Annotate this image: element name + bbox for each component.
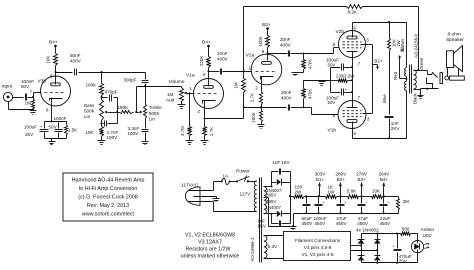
pin 9 V2a (262, 49, 265, 54)
wire feedback riser (243, 7, 245, 72)
svg-text:4.7M: 4.7M (180, 126, 185, 136)
transformer secondary (414, 70, 417, 89)
plug body (450, 76, 465, 80)
svg-text:10K: 10K (46, 56, 51, 64)
net B3+ tap (356, 172, 368, 197)
node OT center tap (405, 77, 407, 82)
wire black lead (413, 89, 421, 105)
wire V1b screen (363, 113, 373, 115)
capacitor 1nF 1KV top snubber (272, 160, 291, 183)
node V1a plate (207, 70, 209, 72)
resistor 5.6K (347, 188, 359, 198)
wire feedback rail (244, 6, 347, 8)
svg-text:V1, V2 ECL86/6GW8: V1, V2 ECL86/6GW8 (185, 232, 235, 238)
speaker (447, 46, 463, 72)
resistor 220K plate V1a (199, 56, 211, 68)
wire rail seg3 (359, 195, 372, 197)
wire 10K to plate rail (55, 66, 57, 73)
pin 2 V1a (198, 109, 201, 114)
wire V2a cathode (261, 77, 263, 92)
jack tip contact (428, 73, 438, 78)
svg-text:2.7K: 2.7K (249, 93, 254, 102)
svg-text:560: 560 (402, 226, 410, 231)
resistor 2.7K V2a cathode (249, 92, 262, 105)
svg-text:450V: 450V (357, 221, 369, 226)
pin 7 V2b (358, 61, 361, 66)
svg-text:180K: 180K (118, 105, 130, 110)
wire cathode rail (351, 58, 353, 94)
resistor 100K tone (86, 73, 104, 96)
svg-text:130Ω 2W: 130Ω 2W (336, 73, 355, 78)
ground V3b cathode (49, 139, 56, 145)
svg-text:Treble: Treble (149, 105, 162, 110)
ground bus filters (294, 212, 399, 226)
svg-text:100uF: 100uF (24, 125, 37, 130)
svg-text:2W: 2W (295, 189, 303, 194)
screen supply line (372, 45, 374, 114)
svg-text:5.6K: 5.6K (347, 188, 357, 193)
wire blue riser (382, 91, 406, 139)
pentode V1b (328, 101, 367, 134)
capacitor 20nF 400V upper (268, 37, 304, 57)
wire to jack (419, 71, 428, 75)
svg-text:Rev: May 2, 2013: Rev: May 2, 2013 (87, 203, 129, 209)
node tone stack top (100, 71, 102, 73)
svg-text:Bass: Bass (84, 103, 95, 108)
svg-text:B1+: B1+ (399, 44, 404, 52)
svg-text:1N4007: 1N4007 (266, 205, 282, 210)
plug tip (445, 76, 449, 80)
svg-text:V3b: V3b (38, 79, 47, 85)
title text (72, 178, 145, 218)
svg-text:V1a: V1a (186, 72, 195, 78)
svg-text:289V: 289V (335, 172, 347, 177)
svg-text:B4+: B4+ (49, 40, 58, 46)
svg-text:100V: 100V (107, 135, 119, 140)
resistor 130ohm 2W cathode (331, 73, 356, 82)
bridge right leg (374, 234, 381, 263)
resistor 10K 1W snubber (388, 23, 401, 51)
svg-text:Power: Power (236, 169, 250, 175)
resistor 10K bass bottom (85, 124, 103, 137)
svg-text:Lin: Lin (84, 114, 91, 119)
wire grid (34, 93, 42, 98)
wire plate rail (56, 72, 73, 74)
ground 470K upper (292, 70, 304, 76)
volume wiper to V1a grid (184, 92, 195, 95)
svg-text:450V: 450V (380, 221, 392, 226)
svg-text:25V: 25V (25, 132, 34, 137)
svg-text:Hammond AO-44 Reverb Amp: Hammond AO-44 Reverb Amp (72, 178, 145, 184)
svg-text:100K: 100K (258, 36, 263, 46)
diode 1N4007 bottom (266, 205, 291, 217)
wire to V1b grid (304, 108, 339, 115)
wire 180K to treble wiper (133, 111, 138, 113)
bridge bottom bus (362, 262, 418, 264)
svg-text:10K: 10K (85, 130, 94, 135)
wire rectifier junction (289, 183, 291, 214)
capacitor 20nF 400V lower (262, 90, 304, 111)
node treble top (144, 85, 146, 87)
wire V1b cathode up (352, 93, 354, 101)
label Volume (169, 79, 185, 85)
resistor 560 LED (401, 226, 411, 235)
label 365V lower (266, 199, 276, 204)
svg-text:Resistors are 1/2W: Resistors are 1/2W (185, 247, 230, 253)
svg-text:365V: 365V (266, 193, 276, 198)
svg-text:Aud: Aud (166, 97, 175, 102)
pin 1 V1a (190, 86, 193, 91)
svg-text:B2+: B2+ (337, 177, 346, 182)
net B2+ (373, 58, 384, 69)
wire to tone stack (79, 72, 146, 74)
triode V2a (246, 52, 282, 85)
svg-text:Filament Connections: Filament Connections (295, 238, 341, 243)
svg-text:400V: 400V (217, 57, 229, 62)
resistor 8.2K feedback (347, 5, 363, 15)
potentiometer Volume 1M Aud (166, 87, 184, 103)
svg-text:AO-24956-1: AO-24956-1 (250, 237, 255, 261)
wire V3b plate (55, 73, 57, 85)
jack bushing (440, 73, 443, 84)
capacitor 50nF 400V coupling (70, 53, 82, 76)
svg-text:B3+: B3+ (262, 22, 271, 28)
triode V1a (186, 72, 224, 108)
svg-text:2KV: 2KV (391, 126, 401, 131)
wire jack to C-in (13, 97, 24, 99)
bridge left leg (358, 234, 365, 263)
svg-text:100K: 100K (251, 112, 256, 122)
title box (63, 173, 153, 221)
net B4+ (V1a) (202, 40, 211, 57)
fuse 1A (221, 173, 231, 184)
svg-text:10nF: 10nF (217, 51, 228, 56)
capacitor 300pF treble (124, 73, 149, 87)
svg-text:1nF: 1nF (391, 121, 399, 126)
jack sleeve return (421, 88, 439, 90)
label 117V (240, 192, 252, 198)
wire to V2a plate (267, 48, 269, 61)
svg-text:400V: 400V (70, 59, 82, 64)
svg-text:to Hi-Fi Amp Conversion: to Hi-Fi Amp Conversion (79, 186, 137, 192)
ground V2a cathode (258, 122, 265, 129)
pin 6 V2b (354, 26, 357, 31)
ground black (418, 96, 424, 99)
ground center tap (290, 225, 297, 229)
svg-text:B4+: B4+ (202, 40, 211, 46)
svg-text:278V: 278V (356, 172, 368, 177)
wire brown lead (400, 23, 406, 68)
node V2a grid (243, 70, 245, 72)
resistor 1M grid leak (25, 98, 35, 109)
node bass bottom (100, 121, 102, 125)
resistor 1M V2a grid (234, 72, 246, 93)
resistor 470K upper grid (302, 54, 313, 70)
svg-text:50V: 50V (49, 124, 58, 129)
capacitor 100nF 50V cathode (49, 122, 63, 139)
ground AC (213, 199, 220, 202)
resistor 100K V2a cathode (251, 108, 263, 123)
label Amber LED (421, 227, 435, 238)
svg-text:100V: 100V (128, 131, 140, 136)
label 180K (118, 105, 130, 110)
svg-text:100K: 100K (86, 83, 98, 88)
svg-text:1nF 1KV: 1nF 1KV (273, 160, 290, 165)
svg-text:Blue: Blue (382, 94, 387, 103)
wire V1b plate rail (353, 138, 407, 140)
svg-text:8 ohm: 8 ohm (448, 31, 461, 37)
wire cathode cross-couple (205, 118, 244, 120)
svg-text:Black: Black (413, 92, 418, 104)
svg-text:20nF: 20nF (281, 90, 292, 95)
svg-text:Volume: Volume (169, 79, 185, 85)
pin 8 V1b (333, 113, 336, 118)
svg-text:Lin: Lin (149, 117, 156, 122)
svg-text:1A: 1A (223, 173, 230, 178)
capacitor 10nF 400V coupling (209, 51, 244, 74)
svg-text:470K: 470K (308, 59, 313, 69)
wire HV center tap (264, 198, 294, 227)
node V1a cathode (203, 117, 205, 119)
svg-text:10K: 10K (372, 188, 381, 193)
svg-text:1M: 1M (25, 101, 32, 106)
svg-text:Red: Red (393, 71, 398, 80)
svg-text:300pF: 300pF (124, 78, 137, 83)
wire V2b screen (362, 44, 373, 46)
capacitor 3.3nF 100V treble (128, 119, 149, 137)
filament connections box (284, 232, 351, 261)
net B4+ (V3b) (49, 40, 58, 54)
svg-text:B1+: B1+ (316, 177, 325, 182)
svg-text:4x 1N4002: 4x 1N4002 (356, 228, 379, 233)
pin 8 V2b (333, 42, 336, 47)
svg-text:B4+: B4+ (380, 177, 389, 182)
power switch (236, 169, 250, 183)
svg-text:50V: 50V (328, 100, 336, 105)
svg-text:1.5K: 1.5K (68, 127, 78, 132)
svg-text:2M: 2M (403, 199, 410, 204)
wire rail seg1 (305, 195, 326, 197)
pin 6 V3b (50, 74, 53, 79)
wire 1M to cathode node (243, 93, 262, 119)
wire rail seg4 (383, 195, 399, 197)
plug prongs (189, 191, 217, 202)
wire 220K to plate (208, 68, 210, 87)
svg-text:B2+: B2+ (374, 58, 383, 63)
capacitor 4.7nF 100V bass (102, 113, 119, 141)
pin 9 V1a (203, 72, 206, 77)
svg-text:V3 12AX7: V3 12AX7 (198, 240, 222, 246)
resistor 2.7K V1a cathode (203, 119, 214, 137)
svg-text:Amber: Amber (421, 227, 435, 232)
svg-text:AO-24158-0: AO-24158-0 (413, 34, 418, 58)
label speaker (446, 31, 464, 43)
wire V3b cathode (51, 98, 53, 123)
wire HV top tap (264, 183, 277, 188)
svg-text:2.7K: 2.7K (209, 127, 214, 136)
pin 3 V1b (367, 117, 370, 122)
pin 7 V3b (30, 90, 33, 95)
capacitor 100uF 50V lower bypass (326, 87, 353, 105)
net B1+ center tap (393, 44, 407, 80)
svg-text:303V: 303V (315, 172, 327, 177)
label 4x 1N4002 (356, 228, 379, 233)
resistor 1.5K cathode (65, 122, 79, 139)
capacitor 470uF 25V (393, 234, 412, 264)
input jack J1 (2, 84, 13, 102)
svg-text:unless marked otherwise: unless marked otherwise (181, 254, 240, 260)
svg-text:264V: 264V (379, 172, 391, 177)
svg-text:www.solorb.com/elect: www.solorb.com/elect (81, 212, 135, 218)
label 117VAC (181, 182, 199, 188)
svg-text:50nF: 50nF (70, 53, 81, 58)
node jack sleeve (32, 108, 34, 110)
cathode network bottom rail (45, 138, 67, 140)
notes text (181, 232, 240, 259)
svg-text:365V: 365V (266, 199, 276, 204)
LED arrows (425, 243, 430, 249)
power transformer HV secondary (264, 187, 267, 214)
resistor 180K tone (118, 111, 133, 114)
potentiometer Bass 500K Lin (84, 100, 104, 121)
svg-text:8.2K: 8.2K (348, 10, 358, 15)
ground 2.7K V1a (201, 136, 209, 145)
wire speaker leads (448, 68, 459, 77)
wire bypass left rail (330, 68, 332, 93)
svg-text:V3 pins 4,5-9: V3 pins 4,5-9 (304, 245, 332, 250)
label filament box (295, 238, 341, 257)
resistor 150 2W (291, 184, 305, 198)
node upper coupling (302, 52, 304, 54)
power transformer core (260, 178, 262, 263)
capacitor 1nF 2KV snubber (385, 117, 401, 139)
capacitor 100nF 50V input coupling (21, 79, 34, 101)
treble wiper arrow (137, 111, 143, 114)
wire V1b plate (352, 122, 354, 139)
wire jack sleeve return (9, 102, 34, 111)
svg-text:470K: 470K (308, 89, 313, 99)
capacitor 470pF bass (102, 90, 118, 102)
pin 3 V2b (366, 37, 369, 42)
svg-text:(c) G. Forrest Cook 2008: (c) G. Forrest Cook 2008 (78, 195, 138, 201)
svg-text:500K: 500K (84, 109, 96, 114)
cathode network top rail (45, 121, 67, 123)
node plate V3b (54, 71, 56, 73)
wire feedback rail right (363, 6, 419, 8)
wire snubber (389, 51, 391, 115)
node V2a plate (266, 52, 268, 54)
wire V1a cathode (204, 101, 206, 119)
svg-text:V1, V2 pins 4-5: V1, V2 pins 4-5 (301, 252, 333, 257)
net B1+ tap (315, 172, 327, 197)
resistor 4.7M (180, 92, 192, 136)
node grid V3b (32, 96, 34, 98)
svg-text:117V: 117V (240, 192, 252, 198)
wire LED return (417, 253, 419, 263)
wire box to bridge (351, 246, 378, 251)
svg-text:400V: 400V (280, 42, 292, 47)
wire to primary (249, 181, 257, 183)
svg-text:450V: 450V (315, 221, 327, 226)
capacitor 47uF 450V second (357, 197, 369, 227)
capacitor 22uF 450V (380, 197, 392, 227)
pentode V2b (336, 29, 366, 58)
svg-text:1M: 1M (234, 82, 239, 88)
resistor 100K plate V2a (258, 36, 270, 48)
svg-text:450V: 450V (302, 221, 314, 226)
wire to LED (411, 234, 418, 241)
wire filament taps (264, 236, 284, 259)
svg-text:Green: Green (419, 57, 424, 70)
ground volume (178, 102, 186, 109)
svg-text:V2b: V2b (336, 29, 345, 35)
transformer core (410, 65, 412, 94)
svg-text:V2a: V2a (246, 52, 255, 58)
wire to switch (231, 181, 237, 183)
svg-text:470pF: 470pF (105, 90, 118, 95)
resistor 10K plate V3b (46, 54, 58, 66)
capacitor 47uF 450V first (336, 197, 348, 227)
wire 470pF to wiper node (117, 98, 119, 113)
ground treble (142, 133, 149, 145)
net B3+ (262, 22, 271, 36)
capacitor 50uF 450V (302, 197, 314, 227)
bridge top bus (362, 232, 401, 234)
svg-text:1KV: 1KV (258, 224, 266, 229)
ground input (30, 111, 37, 115)
capacitor 100uF 450V (314, 197, 327, 227)
ground bass (98, 137, 106, 145)
svg-text:20nF: 20nF (280, 37, 291, 42)
resistor 2M bleeder (397, 197, 410, 214)
svg-text:100nF: 100nF (54, 116, 67, 121)
svg-text:6.3V: 6.3V (268, 244, 279, 250)
triode V3b (38, 76, 71, 106)
wire to V2b grid (304, 48, 339, 54)
wire V2b plate (352, 23, 354, 38)
ground 4.7M (186, 136, 194, 145)
ground bus output grids (304, 81, 331, 86)
net B2+ tap (335, 172, 347, 197)
svg-text:500K: 500K (149, 111, 161, 116)
wire AC bottom (211, 202, 257, 212)
node snubber bottom (388, 137, 390, 139)
pin 7 V1b (358, 95, 361, 100)
svg-text:50V: 50V (328, 62, 336, 67)
wire rail seg2 (337, 195, 348, 197)
net B4+ tap (379, 172, 391, 197)
resistor 10K rail (372, 188, 383, 198)
wire V2b plate rail (353, 21, 407, 23)
pin 6 V1b (354, 131, 357, 136)
bass wiper (104, 111, 118, 114)
power transformer primary (250, 181, 257, 262)
node bass top (100, 96, 102, 100)
label 100nF cathode (54, 116, 67, 121)
node V2a cathode junction (260, 105, 262, 109)
svg-text:Input: Input (2, 84, 13, 90)
label 365V upper (266, 193, 276, 198)
power transformer filament winding (264, 236, 278, 259)
svg-text:LED: LED (423, 233, 433, 238)
wire green lead (414, 7, 424, 72)
pin 1 V2a (249, 66, 252, 71)
svg-text:1W: 1W (328, 189, 336, 194)
AC plug (185, 187, 200, 206)
wire to fuse (211, 182, 221, 191)
LED amber (411, 241, 423, 253)
wire HV bottom tap (264, 213, 277, 215)
